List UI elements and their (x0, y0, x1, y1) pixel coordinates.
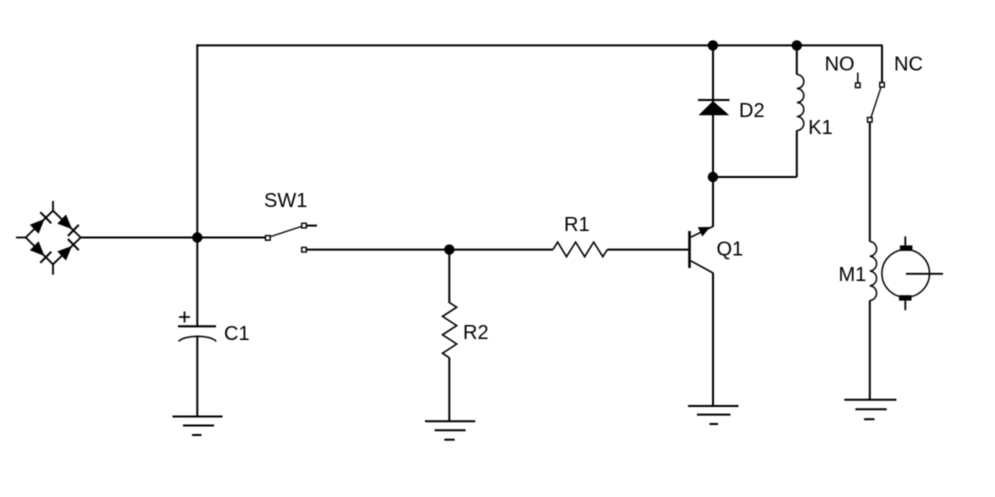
wire pole to motor coil (869, 122, 871, 241)
bridge rectifier BR1 (16, 201, 81, 275)
wire Q1 collector vertical (712, 177, 714, 227)
wire NO stub (857, 73, 859, 84)
svg-text:M1: M1 (839, 264, 867, 286)
diode upper-left (anode left vertex, cathode top) (30, 212, 52, 234)
diode D2 (698, 45, 730, 177)
Q1 arrow (698, 227, 710, 237)
wire Q1 emitter vertical (712, 273, 714, 406)
diode upper-right (anode top vertex, cathode right) (57, 215, 79, 237)
capacitor C1 (178, 238, 216, 417)
svg-text:Q1: Q1 (717, 239, 744, 261)
ground under C1 (173, 417, 223, 436)
wire NC vertical from rail (881, 45, 883, 82)
diode lower-left (anode left vertex, cathode bottom) (30, 241, 52, 262)
resistor R1 (553, 242, 607, 257)
svg-text:R2: R2 (463, 322, 489, 344)
wire M1 bottom stub (904, 301, 906, 311)
M1 shaft (906, 273, 943, 275)
SW1 upper terminal (302, 223, 307, 228)
wire left stub (16, 237, 27, 239)
M1 top brush (900, 245, 913, 251)
wire C1 top lead (196, 238, 198, 327)
node junction dot R2 tap (444, 244, 454, 254)
SW1 blade (271, 226, 303, 236)
SW1 lower terminal (302, 247, 307, 252)
ground under M1 (844, 400, 896, 419)
Q1 emitter diagonal (691, 261, 713, 273)
wire C1 bottom lead (196, 336, 198, 417)
wire K1 top lead (796, 45, 798, 74)
wire K1 bottom to D2 junction (713, 176, 797, 178)
node junction dot top rail / K1 (792, 40, 802, 50)
ground under Q1 (688, 406, 739, 424)
ground under R2 (425, 421, 475, 440)
node junction dot D2 bottom (708, 172, 718, 182)
C1 top plate (178, 325, 216, 327)
svg-text:NO: NO (825, 54, 855, 76)
motor M1 (870, 122, 943, 400)
relay blade (871, 88, 881, 118)
relay pole terminal (868, 118, 873, 123)
M1 armature coil (870, 242, 877, 301)
node junction dot left rail (192, 232, 202, 242)
wire R1 to Q1 base (607, 249, 688, 251)
SW1 left terminal (266, 236, 271, 241)
svg-text:K1: K1 (808, 117, 832, 139)
NC terminal (880, 83, 885, 88)
wire K1 bottom lead (796, 131, 798, 178)
Q1 base bar (688, 231, 691, 268)
C1 curved plate (179, 336, 217, 341)
relay coil K1 (713, 45, 804, 177)
svg-text:R1: R1 (564, 214, 590, 236)
NO terminal (856, 83, 861, 88)
wire R2 top lead (448, 250, 450, 303)
wire top stub (52, 201, 54, 211)
M1 body circle (882, 250, 930, 298)
D2 triangle (699, 101, 730, 115)
resistor R2 (443, 250, 457, 421)
diode lower-right (anode bottom vertex, cathode right) (57, 239, 79, 261)
wire top rail (196, 44, 882, 46)
Q1 collector diagonal (691, 226, 713, 237)
node junction dot top rail / D2 (708, 40, 718, 50)
wire M1 top stub (904, 236, 906, 245)
wire left vertical rail (196, 44, 198, 237)
wire motor coil to ground (869, 301, 871, 400)
wire bottom stub (52, 264, 54, 275)
wire bridge output to SW1 (81, 237, 266, 239)
diamond edges (26, 211, 53, 238)
D2 cathode bar (698, 99, 730, 101)
wire SW1 to R1 (307, 249, 554, 251)
svg-text:C1: C1 (224, 323, 250, 345)
M1 bottom brush (899, 295, 912, 300)
wire D2 vertical (712, 45, 714, 177)
transistor Q1 (690, 177, 714, 406)
wire R2 bottom lead (448, 358, 450, 421)
wire SW1 upper stub (307, 225, 318, 227)
svg-text:NC: NC (894, 54, 923, 76)
svg-text:D2: D2 (739, 100, 765, 122)
C1 plus sign (179, 316, 190, 318)
svg-text:SW1: SW1 (264, 190, 307, 212)
